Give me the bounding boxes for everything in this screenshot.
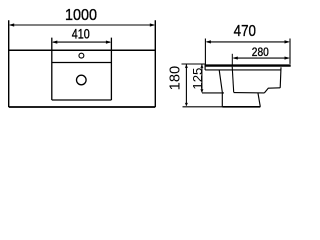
down arrow of 180 dim [185,103,188,106]
bowl inner rectangle side edges (also extension lines for 410 dim) [52,38,112,100]
vanity top outer rectangle side edges (also extension lines for 1000 dim) [9,20,156,107]
svg-text:125: 125 [190,68,205,90]
left arrow of 1000 dim [9,23,15,26]
bottom extension line for 125 dim (bowl depth reference) [202,92,224,94]
right arrow of 470 dim [285,40,291,43]
svg-text:180: 180 [167,66,183,91]
vanity top outer rectangle top edge [9,49,156,51]
bowl inner rectangle horizontal edges [52,63,112,101]
dimension line 410 [53,41,110,43]
trap box right wall [258,93,260,107]
right arrow of 1000 dim [150,23,156,26]
dimension line 125 (vertical) [201,65,203,93]
extension lines of 470 dim [205,39,290,65]
deck underside line [205,69,281,71]
faucet hole (small circle) [79,53,84,58]
svg-text:1000: 1000 [65,7,97,24]
dimension line 280 [234,57,289,59]
deck top surface (thick line) [205,64,291,66]
dimension line 180 (vertical) [185,65,187,106]
up arrow of 125 dim [200,65,203,68]
right arrow of 410 dim [106,41,112,44]
up arrow of 180 dim [185,65,188,68]
vanity top outer rectangle bottom edge [9,106,156,108]
bottom extension line for 180 dim [183,106,223,108]
svg-text:410: 410 [72,27,90,42]
svg-text:470: 470 [234,23,256,40]
drain hole (large circle) [77,75,87,85]
bowl bottom [234,92,265,94]
dimension line 470 [207,41,288,43]
bowl outer-left wall and trap box left wall [219,70,222,107]
left arrow of 470 dim [205,40,211,43]
svg-text:280: 280 [252,47,269,59]
drain step ramp and ledge [264,88,280,93]
right arrow of 280 dim [285,56,291,59]
left arrow of 410 dim [52,41,58,44]
bowl inner-left wall [232,67,234,93]
trap box bottom [222,106,260,108]
dimension line 1000 [10,24,154,26]
left extension line of 280 dim [231,54,233,67]
bowl outer-right wall [279,67,282,88]
top extension line for 180 and 125 dims [182,63,205,65]
down arrow of 125 dim [200,89,203,92]
left arrow of 280 dim [232,56,238,59]
deck left edge [204,65,206,70]
